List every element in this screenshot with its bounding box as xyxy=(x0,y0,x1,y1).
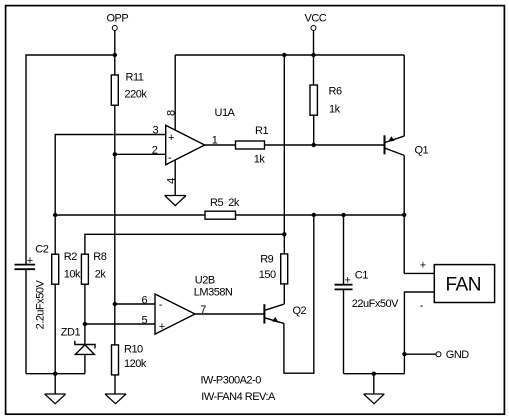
svg-text:3: 3 xyxy=(153,125,159,137)
svg-text:+: + xyxy=(345,275,351,287)
svg-text:2k: 2k xyxy=(228,197,240,209)
svg-text:+: + xyxy=(168,132,174,144)
svg-text:5: 5 xyxy=(142,315,148,327)
svg-text:VCC: VCC xyxy=(305,13,327,25)
svg-text:R9: R9 xyxy=(260,254,273,266)
svg-text:C1: C1 xyxy=(355,269,368,281)
svg-text:U2B: U2B xyxy=(195,275,215,287)
svg-text:120k: 120k xyxy=(124,358,147,370)
svg-text:IW-FAN4 REV:A: IW-FAN4 REV:A xyxy=(201,391,276,403)
svg-text:10k: 10k xyxy=(64,269,81,281)
svg-text:2.2uFx50V: 2.2uFx50V xyxy=(35,279,47,329)
svg-text:R5: R5 xyxy=(210,197,223,209)
svg-text:4: 4 xyxy=(166,178,178,184)
svg-text:2k: 2k xyxy=(95,269,107,281)
svg-text:+: + xyxy=(27,255,33,267)
svg-text:R1: R1 xyxy=(255,125,268,137)
svg-text:FAN: FAN xyxy=(446,275,481,296)
svg-text:+: + xyxy=(159,321,165,333)
svg-text:U1A: U1A xyxy=(215,107,236,119)
svg-text:R10: R10 xyxy=(124,343,143,355)
svg-text:Q1: Q1 xyxy=(415,145,429,157)
svg-text:1k: 1k xyxy=(329,104,341,116)
svg-text:R6: R6 xyxy=(329,86,342,98)
svg-text:R2: R2 xyxy=(64,251,77,263)
svg-text:7: 7 xyxy=(200,304,206,316)
svg-text:C2: C2 xyxy=(35,244,48,256)
svg-text:+: + xyxy=(420,260,426,272)
svg-text:150: 150 xyxy=(259,269,276,281)
svg-text:LM358N: LM358N xyxy=(194,286,233,298)
svg-text:2: 2 xyxy=(152,145,158,157)
svg-text:R8: R8 xyxy=(93,251,106,263)
svg-text:Q2: Q2 xyxy=(293,305,307,317)
svg-text:8: 8 xyxy=(166,110,178,116)
svg-text:6: 6 xyxy=(142,294,148,306)
svg-text:22uFx50V: 22uFx50V xyxy=(352,298,399,310)
svg-text:R11: R11 xyxy=(126,72,144,84)
svg-text:OPP: OPP xyxy=(107,13,129,25)
svg-text:IW-P300A2-0: IW-P300A2-0 xyxy=(201,374,262,386)
svg-text:ZD1: ZD1 xyxy=(61,327,81,339)
svg-text:1k: 1k xyxy=(254,154,266,166)
svg-text:GND: GND xyxy=(446,349,470,361)
svg-text:220k: 220k xyxy=(125,89,148,101)
svg-text:1: 1 xyxy=(212,135,218,147)
